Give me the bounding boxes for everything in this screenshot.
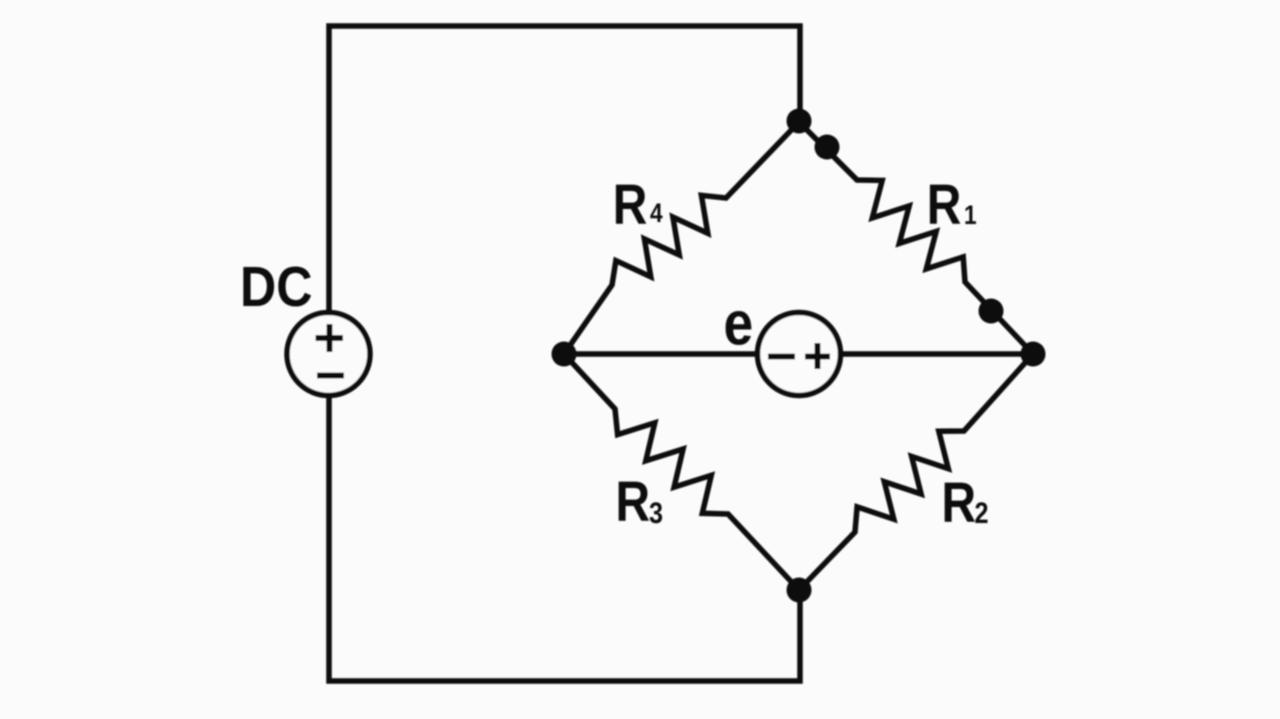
svg-text:R: R <box>942 471 977 535</box>
svg-text:R: R <box>927 173 962 237</box>
svg-text:e: e <box>724 290 754 359</box>
svg-text:DC: DC <box>240 255 312 319</box>
svg-text:4: 4 <box>650 198 663 228</box>
svg-text:2: 2 <box>975 496 989 530</box>
svg-text:3: 3 <box>649 496 663 530</box>
svg-text:R: R <box>616 470 651 534</box>
svg-text:1: 1 <box>964 200 977 230</box>
svg-text:R: R <box>613 173 648 237</box>
